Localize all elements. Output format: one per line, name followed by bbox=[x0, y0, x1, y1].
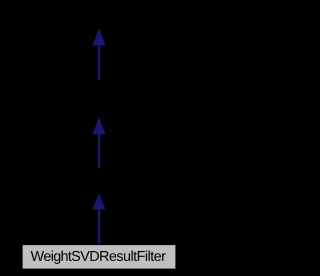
inheritance arrow 1 (to top ancestor) bbox=[93, 29, 105, 80]
ancestor class box (top, transparent on black) bbox=[40, 4, 158, 28]
current class node WeightSVDResultFilter (grey highlighted) bbox=[22, 245, 176, 270]
ancestor class box (second) bbox=[40, 81, 158, 117]
node label WeightSVDResultFilter (text as path) bbox=[31, 251, 166, 264]
ancestor class box (third) bbox=[40, 169, 158, 193]
class inheritance graph for WeightSVDResultFilter bbox=[0, 0, 197, 276]
inheritance arrow 2 (to second ancestor) bbox=[93, 119, 105, 170]
inheritance arrow 3 (to third ancestor) bbox=[93, 194, 105, 243]
